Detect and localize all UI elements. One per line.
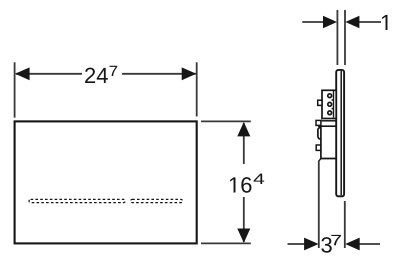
height dimension line lower segment [243, 197, 245, 242]
frame rail line [318, 125, 336, 127]
height dimension arrow bottom [237, 229, 250, 243]
width dimension extension line right [196, 62, 198, 116]
wall anchor tab middle [316, 120, 321, 125]
mounting frame inner wall [333, 91, 335, 118]
width dimension line right segment [122, 73, 196, 75]
frame foot [319, 159, 321, 162]
thickness dimension extension line right [344, 10, 346, 65]
side view plate outer profile [336, 70, 344, 196]
width dimension extension line left [14, 62, 16, 117]
frame flange line [322, 120, 337, 122]
retaining clip hook [318, 127, 321, 139]
thickness dimension line right segment [359, 21, 382, 23]
thickness dimension label 1 [382, 15, 387, 30]
dashed slot right (hidden edge) [131, 199, 183, 202]
width dimension label superscript 7 [109, 66, 117, 76]
width dimension line left segment [16, 73, 82, 75]
height dimension line upper segment [243, 123, 245, 164]
height dimension arrow top [237, 122, 250, 136]
thickness dimension extension line left [336, 10, 338, 65]
depth dimension label 3 [321, 237, 331, 253]
mounting frame upper box [322, 90, 336, 118]
depth dimension line right segment [358, 243, 380, 245]
thickness dimension arrow right [345, 16, 359, 28]
dashed slot left (hidden edge) [29, 199, 125, 202]
depth dimension label superscript 7 [331, 235, 341, 245]
wall anchor tab lower [316, 145, 321, 150]
height dimension label 16 [230, 177, 251, 193]
depth dimension arrow right [345, 238, 360, 251]
height dimension extension line bottom [201, 242, 251, 244]
width dimension arrow left [15, 67, 30, 80]
screw boss lower [332, 108, 334, 110]
mounting frame lower box [321, 127, 336, 159]
screw boss upper [332, 99, 334, 101]
wall anchor tab upper [318, 100, 322, 105]
depth dimension extension line right [344, 201, 346, 248]
width dimension arrow right [182, 67, 197, 80]
height dimension label superscript 4 [254, 174, 265, 184]
depth dimension extension line left [318, 161, 320, 249]
thickness dimension arrow left [323, 16, 337, 28]
depth dimension arrow left [304, 238, 319, 251]
height dimension extension line top [201, 120, 251, 122]
side view plate inner edge line [340, 71, 342, 195]
screw head middle [328, 102, 332, 106]
screw head top [328, 94, 332, 98]
depth dimension line left segment [288, 243, 307, 245]
screw head bottom [328, 111, 332, 115]
front view plate outline [15, 121, 197, 243]
width dimension label 24 [85, 68, 108, 83]
thickness dimension line left segment [302, 21, 324, 23]
